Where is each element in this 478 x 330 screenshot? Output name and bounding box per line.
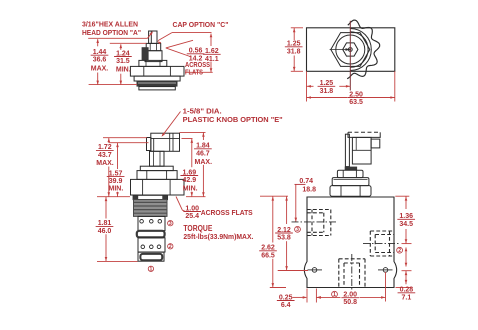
- svg-text:31.8: 31.8: [320, 88, 334, 95]
- svg-text:36.6: 36.6: [93, 57, 107, 64]
- svg-text:ACROSS FLATS: ACROSS FLATS: [201, 208, 253, 217]
- svg-text:MAX.: MAX.: [96, 160, 114, 167]
- svg-text:MAX.: MAX.: [195, 159, 213, 166]
- svg-text:MAX.: MAX.: [91, 65, 109, 72]
- svg-text:39.9: 39.9: [109, 178, 123, 185]
- svg-text:2: 2: [169, 244, 172, 250]
- svg-text:MIN.: MIN.: [116, 67, 131, 74]
- svg-text:31.5: 31.5: [116, 58, 130, 65]
- svg-text:3: 3: [169, 221, 172, 227]
- svg-text:2: 2: [398, 248, 401, 254]
- svg-text:42.9: 42.9: [182, 177, 196, 184]
- svg-text:6.4: 6.4: [281, 302, 291, 309]
- svg-text:3: 3: [296, 227, 299, 233]
- svg-text:34.5: 34.5: [399, 221, 413, 228]
- svg-text:25.4: 25.4: [185, 213, 199, 220]
- svg-text:46.0: 46.0: [98, 228, 112, 235]
- svg-text:3/16"HEX ALLEN: 3/16"HEX ALLEN: [82, 19, 138, 28]
- svg-text:1: 1: [333, 292, 336, 298]
- svg-text:31.8: 31.8: [287, 48, 301, 55]
- svg-text:1: 1: [150, 267, 153, 273]
- svg-text:7.1: 7.1: [402, 294, 412, 301]
- svg-text:PLASTIC KNOB OPTION "E": PLASTIC KNOB OPTION "E": [183, 115, 283, 124]
- svg-text:18.8: 18.8: [302, 187, 316, 194]
- svg-text:66.5: 66.5: [261, 252, 275, 259]
- svg-text:25ft-lbs(33.9Nm)MAX.: 25ft-lbs(33.9Nm)MAX.: [183, 232, 253, 241]
- svg-text:50.8: 50.8: [343, 299, 357, 306]
- svg-text:43.7: 43.7: [98, 152, 112, 159]
- svg-text:53.8: 53.8: [277, 235, 291, 242]
- svg-text:CAP OPTION "C": CAP OPTION "C": [173, 20, 229, 29]
- svg-text:MIN.: MIN.: [109, 186, 124, 193]
- svg-text:63.5: 63.5: [349, 99, 363, 106]
- svg-text:41.1: 41.1: [205, 56, 219, 63]
- svg-text:HEAD OPTION "A": HEAD OPTION "A": [82, 28, 141, 37]
- svg-text:46.7: 46.7: [196, 150, 210, 157]
- svg-text:MIN.: MIN.: [183, 185, 198, 192]
